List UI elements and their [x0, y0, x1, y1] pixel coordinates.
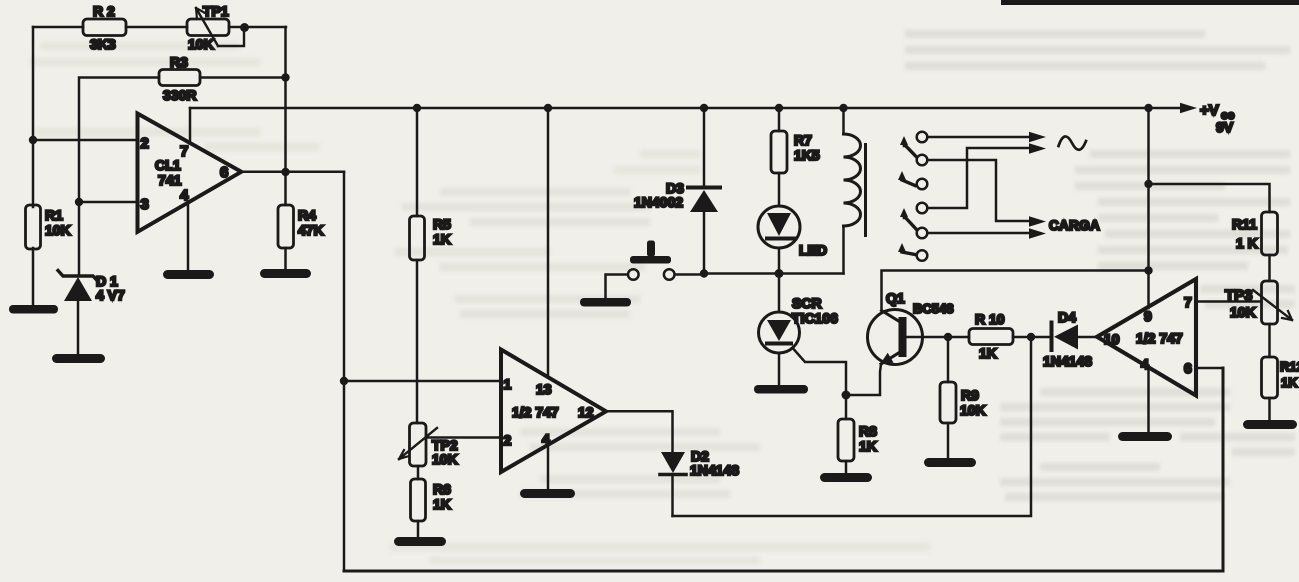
svg-text:6: 6 [1184, 360, 1192, 376]
svg-text:SCR: SCR [792, 295, 822, 311]
relay contact 2 [917, 155, 928, 166]
svg-text:R1: R1 [45, 207, 63, 223]
svg-text:4 V7: 4 V7 [96, 287, 125, 303]
arrow AC line 2 [1029, 143, 1046, 153]
svg-text:9: 9 [1144, 308, 1152, 324]
potentiometer TP2 [399, 423, 458, 467]
node D1 branch [75, 198, 83, 206]
wire contact 5 to CARGA [928, 232, 1033, 235]
diode D2 1N4148 [660, 448, 739, 516]
arrow CARGA line 1 [1029, 216, 1046, 226]
svg-text:R3: R3 [170, 54, 188, 70]
node rail D3 [700, 104, 708, 112]
border top right [1001, 0, 1299, 5]
svg-text:R12: R12 [1280, 359, 1299, 374]
wire Q1 collector to Vcc column [882, 271, 1149, 311]
svg-text:7: 7 [1184, 294, 1192, 310]
wire pin 1 input [344, 380, 501, 383]
relay contact 6 [917, 250, 928, 261]
svg-text:R7: R7 [794, 132, 812, 148]
svg-text:TIC106: TIC106 [792, 310, 838, 326]
wire D2 to R10/D4 junction [673, 337, 1032, 517]
node rail relay coil [839, 104, 847, 112]
wire pin 13 to rail [547, 108, 550, 376]
svg-text:741: 741 [158, 172, 182, 188]
svg-text:2: 2 [504, 432, 512, 448]
relay contact 1 [917, 132, 928, 143]
svg-text:2: 2 [141, 135, 149, 152]
relay arm C [900, 208, 917, 230]
svg-text:R 2: R 2 [93, 3, 115, 19]
wire R3 left to pin3 column [79, 78, 159, 203]
node collector branch [1144, 266, 1152, 274]
svg-text:R4: R4 [298, 207, 316, 223]
node rail R5 [413, 104, 421, 112]
svg-text:12: 12 [578, 404, 594, 420]
wire Q1 base row [907, 336, 970, 339]
resistor R8 [838, 395, 877, 473]
svg-text:R8: R8 [859, 423, 877, 439]
wire bottom feedback return [344, 368, 1223, 571]
svg-text:10: 10 [1104, 331, 1120, 347]
svg-text:TP3: TP3 [1225, 287, 1253, 304]
ground under R4 [260, 269, 311, 278]
relay contact 3 [917, 179, 928, 190]
node rail pin 13 [544, 104, 552, 112]
wire pin 2 input [33, 139, 138, 142]
resistor R9 [940, 337, 986, 458]
resistor R12 [1262, 324, 1299, 420]
relay contact 5 [917, 228, 928, 239]
node output junction R4 [281, 168, 289, 176]
wire pin 7 to +Vcc rail [189, 108, 192, 143]
relay contact 4 [917, 203, 928, 214]
svg-text:13: 13 [536, 381, 552, 397]
svg-text:TP1: TP1 [203, 3, 229, 19]
svg-text:Q1: Q1 [886, 290, 905, 306]
push button [580, 241, 704, 307]
zener D1 [58, 202, 125, 354]
wire right vertical of feedback loop [284, 27, 287, 172]
wire pin 4 to ground [187, 203, 190, 270]
svg-text:4: 4 [180, 187, 189, 204]
svg-text:1K: 1K [859, 438, 877, 454]
wire contact 1 to AC [928, 136, 1033, 139]
LED [758, 206, 827, 274]
svg-text:1K: 1K [433, 231, 451, 247]
svg-text:10K: 10K [432, 451, 458, 467]
node junction pin2 branch [29, 136, 37, 144]
svg-text:BC548: BC548 [913, 301, 953, 316]
arrow +Vcc [1180, 103, 1197, 113]
wire SCR anode row [704, 272, 844, 275]
relay arm B [898, 171, 915, 186]
svg-text:10K: 10K [960, 402, 986, 418]
node rail pin 9 [1144, 104, 1152, 112]
wire top feedback row (R2/TP1 row) [33, 26, 286, 29]
potentiometer TP1 [187, 3, 244, 52]
potentiometer TP3 [1225, 281, 1292, 324]
wire pin 7 to TP3 [1196, 300, 1262, 303]
svg-text:1K: 1K [979, 345, 997, 361]
diode D4 1N4148 [1043, 309, 1097, 369]
arrow CARGA line 2 [1029, 228, 1046, 238]
ground under R8 [820, 473, 872, 482]
svg-text:R 10: R 10 [975, 311, 1005, 327]
ground under R9 [924, 458, 976, 467]
ground under SCR [754, 385, 808, 394]
ground under op-amp U1 [163, 270, 214, 279]
svg-text:9V: 9V [1216, 119, 1234, 135]
svg-text:LED: LED [799, 242, 827, 258]
svg-text:1: 1 [504, 376, 512, 392]
svg-text:10K: 10K [45, 222, 71, 238]
node SCR anode LED junction [775, 269, 784, 278]
node R11 branch [1144, 180, 1152, 188]
power rail +Vcc [190, 107, 1181, 110]
relay arm A [900, 136, 917, 157]
node SCR anode row D3 [700, 269, 708, 277]
wire pin 3 input [79, 201, 138, 204]
resistor R4 [278, 172, 324, 269]
svg-text:R5: R5 [433, 216, 451, 232]
wire R11 branch row [1149, 184, 1270, 212]
wire contact 2 to CARGA [928, 160, 1033, 221]
op-amp U2 1/2 747 [501, 350, 606, 473]
wire R3 right to loop [200, 76, 286, 79]
node SCR gate junction [842, 391, 851, 400]
op-amp U3 1/2 747 [1097, 279, 1196, 396]
arrow AC line 1 [1029, 132, 1046, 142]
wire pin 4 to ground [1147, 366, 1150, 432]
ground under op-amp U2 [520, 489, 575, 498]
resistor R11 [1232, 212, 1278, 281]
svg-text:10K: 10K [1230, 304, 1256, 320]
svg-text:CI.1: CI.1 [155, 157, 181, 173]
ground under R1 [9, 305, 58, 314]
ground under R6 [394, 537, 446, 546]
node rail R7 [775, 104, 783, 112]
resistor R3 [159, 54, 200, 103]
svg-text:7: 7 [180, 143, 188, 160]
ground under R12 [1243, 420, 1297, 429]
relay coil [844, 108, 866, 274]
resistor R2 [83, 3, 126, 52]
svg-text:1/2 747: 1/2 747 [1136, 330, 1183, 346]
svg-text:1N4002: 1N4002 [634, 194, 683, 210]
wire pin 9 to rail [1147, 108, 1150, 308]
transistor Q1 BC548 [846, 290, 953, 395]
SCR TIC106 [759, 274, 847, 396]
relay arm D [898, 243, 915, 255]
wire pin 6 output [241, 171, 344, 174]
svg-text:1K: 1K [1281, 375, 1298, 390]
node R9 branch [944, 333, 952, 341]
resistor R6 [411, 466, 452, 537]
svg-text:330R: 330R [163, 87, 196, 103]
svg-text:6: 6 [220, 164, 228, 181]
wire pin 12 output to D2 [606, 411, 673, 453]
node R3 right junction [281, 73, 289, 81]
resistor R1 [26, 205, 71, 305]
svg-text:R11: R11 [1232, 216, 1257, 232]
svg-text:D4: D4 [1058, 309, 1076, 325]
op-amp U1 CI.1 741 [138, 114, 242, 232]
wire output down to comparator [343, 172, 346, 571]
wire pin 6 to bottom return [1196, 367, 1223, 370]
svg-text:1 K: 1 K [1236, 235, 1258, 251]
svg-text:CARGA: CARGA [1049, 218, 1100, 233]
resistor R10 [969, 311, 1049, 361]
node D2 feedback junction [1027, 333, 1035, 341]
ground under op-amp U3 [1118, 432, 1172, 441]
wire contact 4 to AC [928, 148, 1033, 208]
svg-text:1/2 747: 1/2 747 [512, 404, 559, 420]
svg-text:1N4148: 1N4148 [1043, 353, 1092, 369]
diode D3 1N4002 [634, 108, 720, 274]
node pin 1 junction [340, 377, 348, 385]
resistor R7 [771, 108, 820, 206]
svg-text:3K3: 3K3 [90, 36, 116, 52]
svg-text:1K: 1K [433, 496, 451, 512]
wire left vertical from top row to R1 [32, 27, 35, 205]
ground under D1 [52, 354, 105, 363]
wire pin 4 to ground [547, 445, 550, 489]
svg-text:1K5: 1K5 [794, 147, 820, 163]
resistor R5 [410, 108, 452, 423]
label +Vcc 9V [1200, 102, 1235, 135]
svg-text:R6: R6 [433, 481, 451, 497]
svg-text:1N4148: 1N4148 [690, 462, 739, 478]
svg-text:+V: +V [1200, 102, 1219, 119]
node TP1 wiper junction [240, 23, 249, 32]
svg-text:R9: R9 [961, 387, 979, 403]
svg-text:3: 3 [141, 196, 149, 213]
wire TP2 wiper to pin 2 [426, 436, 501, 439]
svg-text:10K: 10K [188, 36, 214, 52]
svg-text:47K: 47K [298, 222, 324, 238]
AC sine symbol [1059, 136, 1087, 149]
